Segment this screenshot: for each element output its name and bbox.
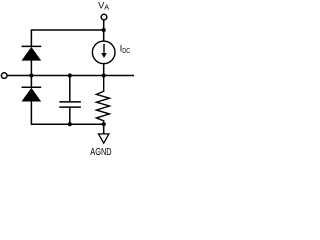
svg-text:A: A: [104, 2, 109, 11]
svg-text:AGND: AGND: [90, 147, 111, 158]
svg-text:DC: DC: [122, 46, 130, 55]
